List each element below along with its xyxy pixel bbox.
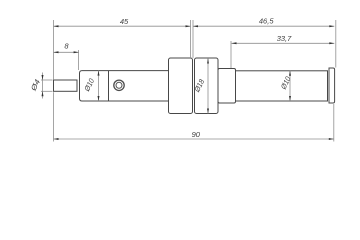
dim 90 (54, 138, 334, 140)
hole ring (114, 80, 124, 90)
dim Ø4 line (42, 73, 44, 99)
ext 46.5 left (192, 20, 194, 58)
body Ø10 left (80, 71, 169, 101)
ext left tip bottom (53, 92, 55, 141)
svg-text:45: 45 (120, 17, 129, 26)
ext 45 right (190, 20, 192, 58)
arrows dim 33,7 (232, 42, 237, 44)
ext 33.7 left (230, 41, 232, 68)
dim 8 (54, 51, 79, 53)
dim Ø18 line (207, 58, 209, 114)
dim 46,5 (193, 25, 334, 27)
ext right bottom (333, 104, 335, 142)
end cap (329, 68, 335, 103)
dim 33,7 (232, 42, 335, 44)
svg-text:90: 90 (192, 130, 201, 139)
svg-text:33,7: 33,7 (277, 34, 292, 43)
dim Ø10 left line (98, 71, 100, 101)
rod tip Ø4 (54, 80, 78, 91)
arrows dim Ø18 (207, 58, 209, 64)
extension lines (41, 20, 336, 142)
dim 45 (54, 25, 191, 27)
arrows dim 8 (54, 51, 59, 53)
arrows dim Ø10 left (98, 71, 100, 76)
ext Ø4 top (41, 79, 53, 81)
junction line (108, 71, 110, 101)
cylinder Ø10 right (236, 71, 328, 101)
collar A Ø18 (169, 58, 193, 114)
dim Ø10 right line (289, 71, 291, 101)
arrows dim Ø4 (outside) (42, 75, 44, 80)
arrowheads (42, 25, 335, 140)
arrows dim 46,5 (193, 25, 198, 27)
ext left tip top (53, 20, 55, 79)
svg-text:46,5: 46,5 (259, 16, 274, 25)
arrows dim Ø10 right (289, 71, 291, 76)
ext Ø4 bottom (41, 90, 53, 92)
collar B Ø18 (195, 58, 219, 114)
collar C (218, 69, 236, 104)
ext right top (335, 20, 337, 68)
ext 8 right (78, 50, 80, 70)
dimension lines (43, 26, 335, 139)
arrows dim 45 (54, 25, 59, 27)
arrows dim 90 (54, 138, 59, 140)
